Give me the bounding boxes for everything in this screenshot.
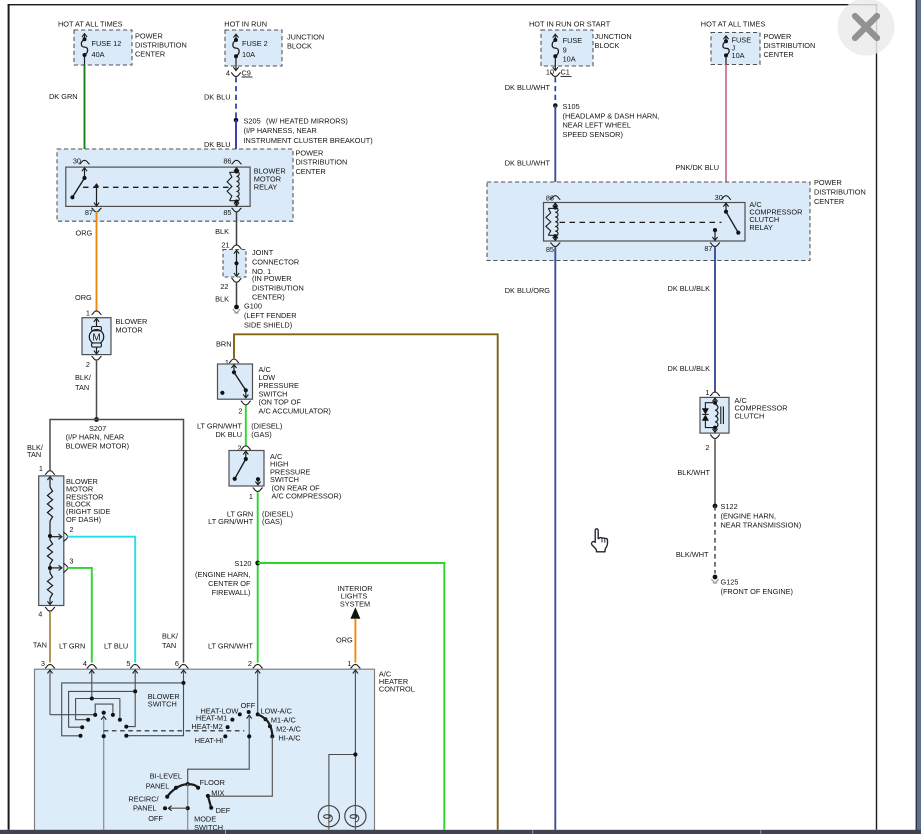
svg-text:(GAS): (GAS) bbox=[262, 517, 282, 526]
svg-text:BLK/WHT: BLK/WHT bbox=[676, 550, 709, 559]
svg-text:CONNECTOR: CONNECTOR bbox=[252, 258, 299, 267]
svg-text:BLK: BLK bbox=[215, 294, 229, 303]
svg-text:DK BLU/BLK: DK BLU/BLK bbox=[668, 284, 711, 293]
svg-text:SYSTEM: SYSTEM bbox=[340, 600, 370, 609]
svg-text:SIDE SHIELD): SIDE SHIELD) bbox=[244, 320, 292, 329]
svg-text:M: M bbox=[92, 332, 100, 343]
svg-text:G125: G125 bbox=[721, 578, 739, 587]
svg-text:DK GRN: DK GRN bbox=[49, 92, 78, 101]
svg-text:4: 4 bbox=[83, 659, 87, 668]
svg-text:BI-LEVEL: BI-LEVEL bbox=[150, 772, 182, 781]
svg-text:1: 1 bbox=[705, 388, 709, 397]
svg-text:30: 30 bbox=[73, 156, 81, 165]
svg-text:CENTER: CENTER bbox=[764, 50, 794, 59]
svg-text:DK BLU/WHT: DK BLU/WHT bbox=[505, 159, 551, 168]
svg-text:2: 2 bbox=[86, 360, 90, 369]
svg-text:3: 3 bbox=[69, 557, 73, 566]
svg-text:10: 10 bbox=[546, 67, 554, 76]
svg-text:(ENGINE HARN,: (ENGINE HARN, bbox=[721, 511, 777, 520]
svg-text:DISTRIBUTION: DISTRIBUTION bbox=[814, 187, 866, 196]
svg-text:OFF: OFF bbox=[241, 701, 256, 710]
svg-text:LT GRN/WHT: LT GRN/WHT bbox=[208, 517, 254, 526]
svg-text:BLOCK: BLOCK bbox=[595, 41, 620, 50]
svg-text:MIX: MIX bbox=[211, 788, 224, 797]
svg-text:C1: C1 bbox=[561, 68, 570, 77]
svg-text:JUNCTION: JUNCTION bbox=[595, 32, 632, 41]
svg-text:(ON TOP OF: (ON TOP OF bbox=[259, 398, 302, 407]
svg-text:LT GRN: LT GRN bbox=[59, 642, 85, 651]
svg-text:FUSE: FUSE bbox=[563, 36, 583, 45]
svg-text:DK BLU: DK BLU bbox=[215, 430, 242, 439]
svg-text:DISTRIBUTION: DISTRIBUTION bbox=[296, 158, 348, 167]
svg-text:POWER: POWER bbox=[814, 178, 842, 187]
svg-text:1: 1 bbox=[86, 308, 90, 317]
svg-text:CONTROL: CONTROL bbox=[379, 685, 415, 694]
svg-text:OFF: OFF bbox=[148, 814, 163, 823]
svg-text:2: 2 bbox=[248, 659, 252, 668]
svg-text:HEAT-HI: HEAT-HI bbox=[195, 736, 223, 745]
svg-text:DISTRIBUTION: DISTRIBUTION bbox=[252, 284, 304, 293]
svg-text:BLK: BLK bbox=[215, 227, 229, 236]
svg-text:A/C ACCUMULATOR): A/C ACCUMULATOR) bbox=[259, 407, 331, 416]
svg-text:HEAT-M2: HEAT-M2 bbox=[191, 722, 222, 731]
svg-text:MOTOR: MOTOR bbox=[116, 326, 143, 335]
svg-text:HOT IN RUN OR START: HOT IN RUN OR START bbox=[529, 20, 611, 29]
svg-text:FUSE 2: FUSE 2 bbox=[242, 39, 268, 48]
svg-text:POWER: POWER bbox=[296, 149, 324, 158]
svg-text:NEAR TRANSMISSION): NEAR TRANSMISSION) bbox=[721, 521, 802, 530]
svg-text:85: 85 bbox=[546, 245, 554, 254]
svg-text:RECIRC/: RECIRC/ bbox=[128, 795, 159, 804]
svg-text:4: 4 bbox=[38, 609, 42, 618]
svg-text:(I/P HARNESS, NEAR: (I/P HARNESS, NEAR bbox=[244, 126, 317, 135]
svg-text:INSTRUMENT CLUSTER BREAKOUT): INSTRUMENT CLUSTER BREAKOUT) bbox=[244, 136, 373, 145]
svg-text:86: 86 bbox=[546, 193, 554, 202]
svg-text:S105: S105 bbox=[563, 102, 580, 111]
svg-text:ORG: ORG bbox=[336, 635, 353, 644]
svg-text:(ENGINE HARN,: (ENGINE HARN, bbox=[195, 570, 251, 579]
svg-text:1: 1 bbox=[347, 659, 351, 668]
svg-text:BLK/WHT: BLK/WHT bbox=[677, 468, 710, 477]
svg-text:RELAY: RELAY bbox=[749, 223, 773, 232]
svg-text:S120: S120 bbox=[234, 559, 251, 568]
svg-text:87: 87 bbox=[704, 244, 712, 253]
svg-text:(IN POWER: (IN POWER bbox=[252, 274, 292, 283]
svg-text:PANEL: PANEL bbox=[146, 781, 170, 790]
svg-text:TAN: TAN bbox=[27, 450, 41, 459]
svg-text:(W/ HEATED MIRRORS): (W/ HEATED MIRRORS) bbox=[266, 117, 348, 126]
svg-text:10A: 10A bbox=[732, 51, 745, 60]
svg-text:G100: G100 bbox=[244, 302, 262, 311]
svg-text:86: 86 bbox=[223, 156, 231, 165]
svg-text:TAN: TAN bbox=[75, 383, 89, 392]
svg-text:DISTRIBUTION: DISTRIBUTION bbox=[135, 41, 187, 50]
svg-text:LOW-A/C: LOW-A/C bbox=[261, 707, 293, 716]
svg-text:TAN: TAN bbox=[162, 641, 176, 650]
svg-text:(LEFT FENDER: (LEFT FENDER bbox=[244, 311, 297, 320]
svg-text:HOT IN RUN: HOT IN RUN bbox=[224, 20, 267, 29]
svg-text:21: 21 bbox=[221, 240, 229, 249]
svg-text:5: 5 bbox=[126, 659, 130, 668]
svg-text:2: 2 bbox=[69, 525, 73, 534]
svg-text:CENTER: CENTER bbox=[296, 167, 326, 176]
svg-text:PNK/DK BLU: PNK/DK BLU bbox=[675, 163, 719, 172]
svg-text:40A: 40A bbox=[92, 50, 105, 59]
svg-text:87: 87 bbox=[85, 208, 93, 217]
svg-text:DK BLU: DK BLU bbox=[204, 140, 231, 149]
svg-text:(FRONT OF ENGINE): (FRONT OF ENGINE) bbox=[721, 587, 793, 596]
svg-text:FLOOR: FLOOR bbox=[200, 778, 225, 787]
svg-text:CENTER OF: CENTER OF bbox=[208, 579, 251, 588]
svg-text:3: 3 bbox=[41, 659, 45, 668]
svg-text:SWITCH: SWITCH bbox=[148, 700, 177, 709]
svg-text:POWER: POWER bbox=[764, 32, 792, 41]
svg-text:BLOWER MOTOR): BLOWER MOTOR) bbox=[66, 442, 130, 451]
svg-text:S205: S205 bbox=[244, 117, 261, 126]
svg-text:4: 4 bbox=[226, 68, 230, 77]
svg-text:PANEL: PANEL bbox=[133, 803, 157, 812]
svg-text:2: 2 bbox=[238, 406, 242, 415]
svg-text:DK BLU/WHT: DK BLU/WHT bbox=[505, 83, 551, 92]
svg-text:M1-A/C: M1-A/C bbox=[271, 716, 297, 725]
svg-text:2: 2 bbox=[705, 443, 709, 452]
svg-text:RELAY: RELAY bbox=[254, 182, 278, 191]
svg-text:NEAR LEFT WHEEL: NEAR LEFT WHEEL bbox=[563, 121, 631, 130]
svg-text:30: 30 bbox=[715, 193, 723, 202]
svg-text:TAN: TAN bbox=[33, 641, 47, 650]
svg-text:1: 1 bbox=[39, 464, 43, 473]
svg-text:22: 22 bbox=[220, 282, 228, 291]
svg-text:A/C COMPRESSOR): A/C COMPRESSOR) bbox=[272, 492, 342, 501]
svg-text:LT BLU: LT BLU bbox=[104, 642, 128, 651]
svg-text:M2-A/C: M2-A/C bbox=[276, 725, 302, 734]
svg-text:HI-A/C: HI-A/C bbox=[279, 734, 302, 743]
svg-text:DK BLU: DK BLU bbox=[204, 92, 231, 101]
svg-text:OF DASH): OF DASH) bbox=[66, 515, 101, 524]
svg-text:BLOCK: BLOCK bbox=[287, 41, 312, 50]
svg-text:DK BLU/ORG: DK BLU/ORG bbox=[505, 286, 551, 295]
svg-text:6: 6 bbox=[175, 659, 179, 668]
svg-text:BLK/: BLK/ bbox=[162, 632, 179, 641]
svg-text:ORG: ORG bbox=[76, 229, 93, 238]
svg-text:1: 1 bbox=[249, 492, 253, 501]
svg-text:CLUTCH: CLUTCH bbox=[735, 412, 765, 421]
svg-text:CENTER: CENTER bbox=[814, 197, 844, 206]
svg-text:DK BLU/BLK: DK BLU/BLK bbox=[668, 364, 711, 373]
svg-text:10A: 10A bbox=[242, 50, 255, 59]
svg-text:(I/P HARN, NEAR: (I/P HARN, NEAR bbox=[66, 433, 125, 442]
svg-text:JOINT: JOINT bbox=[252, 248, 274, 257]
svg-text:HOT AT ALL TIMES: HOT AT ALL TIMES bbox=[701, 20, 766, 29]
svg-text:DEF: DEF bbox=[216, 806, 231, 815]
svg-text:JUNCTION: JUNCTION bbox=[287, 32, 324, 41]
svg-text:CENTER: CENTER bbox=[135, 50, 165, 59]
svg-text:C9: C9 bbox=[242, 68, 251, 77]
svg-text:FIREWALL): FIREWALL) bbox=[212, 588, 251, 597]
svg-text:10A: 10A bbox=[563, 55, 576, 64]
svg-text:ORG: ORG bbox=[75, 293, 92, 302]
svg-text:BLK/: BLK/ bbox=[75, 373, 92, 382]
svg-text:SPEED SENSOR): SPEED SENSOR) bbox=[563, 130, 623, 139]
svg-text:BRN: BRN bbox=[216, 340, 232, 349]
svg-text:85: 85 bbox=[223, 208, 231, 217]
svg-text:(GAS): (GAS) bbox=[251, 430, 271, 439]
svg-text:CENTER): CENTER) bbox=[252, 293, 285, 302]
svg-text:FUSE 12: FUSE 12 bbox=[92, 39, 122, 48]
svg-text:POWER: POWER bbox=[135, 32, 163, 41]
svg-text:HOT AT ALL TIMES: HOT AT ALL TIMES bbox=[58, 20, 123, 29]
svg-text:LT GRN/WHT: LT GRN/WHT bbox=[208, 642, 254, 651]
svg-text:9: 9 bbox=[563, 46, 567, 55]
svg-text:(HEADLAMP & DASH HARN,: (HEADLAMP & DASH HARN, bbox=[563, 112, 660, 121]
svg-text:S122: S122 bbox=[721, 502, 738, 511]
svg-text:DISTRIBUTION: DISTRIBUTION bbox=[764, 41, 816, 50]
